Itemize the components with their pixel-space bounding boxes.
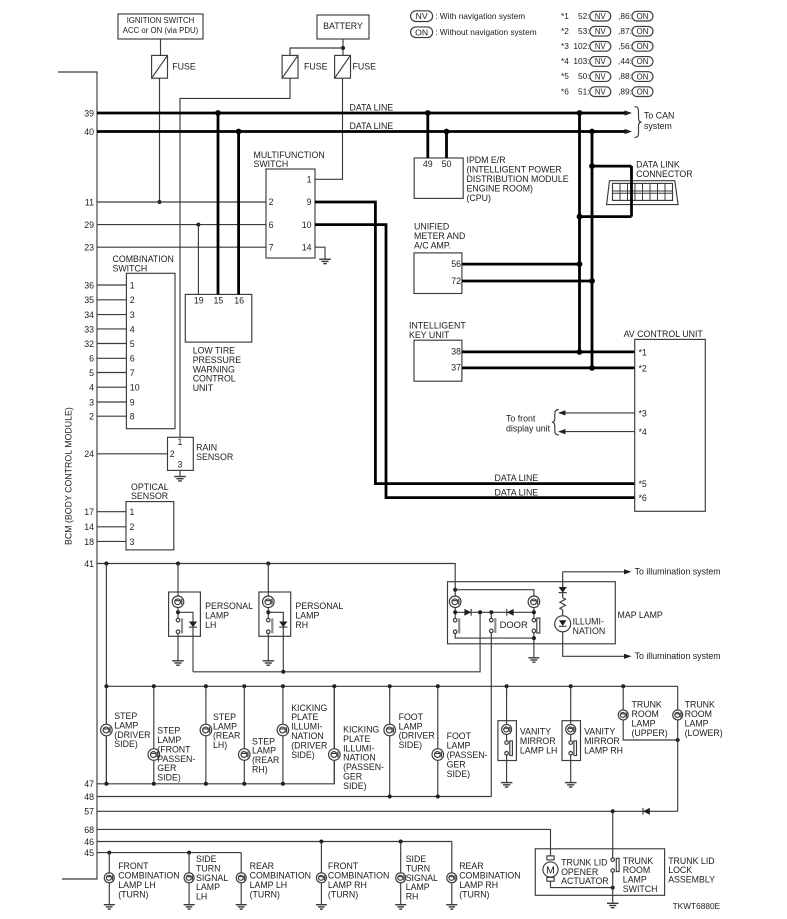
svg-text:9: 9 [130, 397, 135, 407]
svg-text:RH: RH [406, 892, 419, 902]
svg-text:M: M [546, 865, 555, 877]
lamp circuit: step lamp rear LH [204, 684, 208, 688]
svg-text:To CAN: To CAN [644, 111, 674, 121]
svg-text:UNIT: UNIT [193, 383, 214, 393]
fuse F2 (battery) [282, 55, 298, 78]
left feed vertical row41->row47 [105, 564, 107, 784]
svg-text:50:: 50: [578, 71, 590, 81]
rain sensor pin 3 to ground [179, 470, 181, 476]
svg-text:LAMP RH: LAMP RH [584, 745, 623, 755]
svg-text:2: 2 [170, 449, 175, 459]
svg-text:BCM (BODY CONTROL MODULE): BCM (BODY CONTROL MODULE) [64, 407, 74, 545]
svg-text:49: 49 [423, 159, 433, 169]
svg-text:ASSEMBLY: ASSEMBLY [668, 875, 715, 885]
svg-text:9: 9 [307, 197, 312, 207]
svg-text:16: 16 [234, 296, 244, 306]
row 57 wire [97, 810, 678, 812]
svg-text:ON: ON [637, 57, 649, 66]
door switch contacts RH [267, 618, 271, 622]
row 24 to rain sensor pin 2 [97, 453, 168, 455]
svg-text:10: 10 [302, 220, 312, 230]
svg-text:: With navigation system: : With navigation system [435, 11, 525, 21]
row 29 to MF pin 6 [97, 224, 266, 226]
svg-text:TKWT6880E: TKWT6880E [673, 901, 721, 911]
svg-text:KEY UNIT: KEY UNIT [409, 330, 450, 340]
ground personal lamp LH [172, 660, 184, 662]
svg-text:*5: *5 [639, 479, 647, 489]
svg-text:LH: LH [205, 620, 216, 630]
top branch to bulb 2 [455, 590, 534, 597]
svg-text:39: 39 [84, 108, 94, 118]
bulb personal lamp RH [263, 596, 275, 608]
svg-text:,86:: ,86: [618, 11, 632, 21]
ground side turn signal lamp RH [395, 904, 406, 906]
diode branch RH [268, 612, 283, 621]
svg-text:2: 2 [130, 295, 135, 305]
svg-text:DATA LINE: DATA LINE [495, 488, 539, 498]
ground front combination lamp RH [316, 904, 327, 906]
row 47 wire [97, 686, 334, 784]
svg-text:2: 2 [269, 197, 274, 207]
DLC wire through connector [630, 166, 633, 217]
svg-text:,88:: ,88: [618, 71, 632, 81]
svg-text:RH: RH [295, 620, 308, 630]
illumination LED lamp [555, 616, 571, 632]
svg-text:ON: ON [637, 42, 649, 51]
svg-text:72: 72 [451, 276, 461, 286]
svg-text:DISTRIBUTION MODULE: DISTRIBUTION MODULE [467, 174, 569, 184]
ground vanity LH [501, 782, 513, 784]
row 11 to MF pin 2 [97, 201, 266, 203]
ground at MF pin 14 [319, 258, 331, 260]
svg-text:NV: NV [595, 42, 607, 51]
svg-text:56: 56 [451, 259, 461, 269]
svg-text:33: 33 [84, 324, 94, 334]
wire ignition to fuse [160, 39, 162, 55]
svg-text:5: 5 [130, 339, 135, 349]
svg-text:DOOR: DOOR [500, 619, 528, 630]
svg-text:SIDE): SIDE) [157, 773, 181, 783]
svg-text:ACC or ON (via PDU): ACC or ON (via PDU) [123, 26, 199, 35]
ground front combination lamp LH [104, 904, 115, 906]
junction to middle door switch [489, 610, 493, 614]
wire fuse F2 down to rain sensor pin 1 [180, 78, 290, 437]
svg-text:display unit: display unit [506, 424, 551, 434]
svg-text:NV: NV [595, 87, 607, 96]
svg-text:1: 1 [307, 175, 312, 185]
multifunction switch box [266, 169, 315, 258]
AV control unit box [635, 339, 706, 511]
wire row29 branch to pin 19 [197, 225, 199, 295]
wire to illumination system (top arrow) [563, 571, 625, 573]
row 45 wire [97, 852, 241, 854]
svg-text:102:: 102: [573, 41, 589, 51]
svg-text:68: 68 [84, 825, 94, 835]
ignition switch box [118, 14, 203, 39]
ground rear combination lamp RH [446, 904, 457, 906]
svg-text:FUSE: FUSE [353, 61, 377, 71]
svg-text:FUSE: FUSE [304, 61, 328, 71]
data line row 39 (CAN-H) [97, 112, 625, 115]
lamp circuit: step lamp driver [104, 684, 108, 688]
svg-text:41: 41 [84, 559, 94, 569]
svg-text:NATION: NATION [573, 626, 606, 636]
svg-text:103:: 103: [573, 56, 589, 66]
fuse F3 (battery) [335, 55, 351, 78]
svg-text:DATA LINE: DATA LINE [350, 121, 394, 131]
DLC branch from B [592, 165, 632, 168]
middle switch wire down to row 48 [490, 633, 492, 797]
wire row41 to personal lamp RH [267, 564, 269, 597]
svg-text:SIDE): SIDE) [399, 740, 423, 750]
MF pin 14 wire to ground [315, 247, 325, 259]
door switch row [455, 611, 534, 613]
svg-text:,89:: ,89: [618, 86, 632, 96]
svg-text:*3: *3 [639, 408, 647, 418]
diode D1 (anode left) [464, 609, 471, 616]
svg-text:(TURN): (TURN) [250, 889, 280, 899]
svg-text:ON: ON [637, 87, 649, 96]
trunk room lamp (upper) [621, 684, 625, 688]
side turn signal lamp RH [400, 842, 402, 905]
svg-text:14: 14 [302, 243, 312, 253]
svg-text:40: 40 [84, 127, 94, 137]
svg-text:8: 8 [130, 412, 135, 422]
MF pin 10 wire to AV *6 (data line) [315, 225, 635, 498]
svg-text:35: 35 [84, 295, 94, 305]
trunk lid opener actuator (motor) [547, 856, 554, 860]
svg-text:38: 38 [451, 347, 461, 357]
svg-text:3: 3 [130, 537, 135, 547]
vanity mirror lamp LH [505, 684, 509, 688]
personal lamp LH box [169, 592, 201, 636]
MF pin 9 wire to AV *5 (data line) [315, 202, 635, 484]
legend: ON oval [411, 27, 433, 38]
row 37 thick wire to AV *2 [462, 366, 635, 369]
svg-text:(UPPER): (UPPER) [632, 728, 668, 738]
svg-text:SWITCH: SWITCH [254, 159, 289, 169]
svg-text:*3: *3 [561, 41, 569, 51]
trunk room lamp (lower) [677, 686, 679, 811]
trunk lid lock assembly box [535, 849, 664, 896]
svg-text:29: 29 [84, 220, 94, 230]
ground rear combination lamp LH [236, 904, 247, 906]
lamp circuit: foot lamp driver [388, 684, 392, 688]
svg-text:LH: LH [196, 892, 207, 902]
wire row41 to personal lamp LH [177, 564, 179, 597]
svg-text:ACTUATOR: ACTUATOR [561, 876, 609, 886]
svg-text:IGNITION SWITCH: IGNITION SWITCH [127, 16, 195, 25]
svg-text:57: 57 [84, 807, 94, 817]
svg-text:7: 7 [130, 368, 135, 378]
svg-text:SIDE): SIDE) [291, 750, 315, 760]
row 68 wire to trunk lid opener [97, 829, 551, 856]
svg-text:BATTERY: BATTERY [323, 21, 363, 31]
personal lamp RH box [259, 592, 291, 636]
lamp circuit: kicking plate driver [281, 684, 285, 688]
svg-text:ON: ON [637, 12, 649, 21]
svg-text:DATA LINE: DATA LINE [495, 473, 539, 483]
svg-text:48: 48 [84, 792, 94, 802]
row 41 wire [97, 564, 455, 597]
thick wire data line 40 to pin 16 [237, 132, 240, 295]
optical sensor box [126, 502, 174, 550]
battery box [317, 15, 369, 39]
svg-text:To illumination system: To illumination system [635, 651, 721, 661]
rear combination lamp LH [240, 853, 242, 905]
wire fuse F3 to multifunction switch pin 1 [315, 78, 343, 179]
thick wire data line 39 to pin 15 [217, 113, 220, 294]
svg-text:IPDM E/R: IPDM E/R [467, 155, 506, 165]
front combination lamp RH [320, 842, 322, 905]
optical sensor rows 17/14/18 [97, 511, 126, 513]
svg-text:ON: ON [415, 27, 428, 37]
svg-text:*2: *2 [639, 363, 647, 373]
svg-text:NV: NV [416, 11, 428, 21]
DLC branch to A [580, 215, 632, 218]
svg-text:ON: ON [637, 72, 649, 81]
IPDM E/R box [414, 158, 463, 198]
wire to illumination system (bottom arrow) [563, 632, 625, 657]
svg-text:(CPU): (CPU) [467, 193, 492, 203]
svg-text:*5: *5 [561, 71, 569, 81]
svg-text:MAP LAMP: MAP LAMP [618, 610, 663, 620]
diode return wire to map lamp door line [193, 612, 480, 672]
svg-text:SWITCH: SWITCH [113, 264, 148, 274]
svg-text:(TURN): (TURN) [118, 889, 148, 899]
lamp circuit: kicking plate passenger [332, 684, 336, 688]
svg-text:,87:: ,87: [618, 26, 632, 36]
svg-text:system: system [644, 121, 672, 131]
svg-text:3: 3 [178, 459, 183, 469]
svg-text:NV: NV [595, 72, 607, 81]
svg-text:(TURN): (TURN) [328, 889, 358, 899]
svg-text:1: 1 [178, 437, 183, 447]
row 46 wire [97, 841, 452, 843]
row 48 wire [97, 796, 491, 798]
map lamp box [448, 582, 616, 644]
row 23 to MF pin 7 [97, 246, 266, 248]
diode on row 57 (cathode left) [643, 808, 650, 815]
CAN vertical branch B (from line 40) [591, 132, 594, 368]
svg-text:52:: 52: [578, 11, 590, 21]
svg-text:RH): RH) [252, 765, 268, 775]
rain sensor box [168, 437, 194, 470]
svg-text:SIDE): SIDE) [447, 769, 471, 779]
svg-text:5: 5 [89, 368, 94, 378]
svg-text:AV CONTROL UNIT: AV CONTROL UNIT [624, 329, 704, 339]
svg-text:45: 45 [84, 848, 94, 858]
svg-text:1: 1 [130, 280, 135, 290]
door switch contacts LH [176, 618, 180, 622]
svg-text:SENSOR: SENSOR [196, 452, 233, 462]
svg-text:51:: 51: [578, 86, 590, 96]
svg-text:To front: To front [506, 414, 536, 424]
vanity mirror lamp RH [569, 684, 573, 688]
lamp circuit: foot lamp passenger [436, 684, 440, 688]
svg-text:*1: *1 [561, 11, 569, 21]
svg-text:6: 6 [269, 220, 274, 230]
svg-text:4: 4 [89, 383, 94, 393]
middle door switch [490, 612, 492, 618]
svg-text:3: 3 [89, 397, 94, 407]
diode branch LH [178, 612, 193, 621]
svg-text:*4: *4 [561, 56, 569, 66]
svg-text:3: 3 [130, 310, 135, 320]
svg-text:50: 50 [442, 159, 452, 169]
row 56 thick wire [462, 263, 580, 266]
svg-text:SWITCH: SWITCH [623, 884, 658, 894]
svg-text:DATA LINE: DATA LINE [350, 103, 394, 113]
rear combination lamp RH [451, 842, 453, 905]
lamp circuit: step lamp front passenger [152, 684, 156, 688]
svg-text:To illumination system: To illumination system [635, 567, 721, 577]
front combination lamp LH [108, 853, 110, 905]
svg-text:4: 4 [130, 324, 135, 334]
svg-text:,44:: ,44: [618, 56, 632, 66]
junction dots on data lines [215, 110, 221, 116]
svg-text:*2: *2 [561, 26, 569, 36]
wire fuse F1 down to row 11 [159, 78, 161, 202]
svg-text:15: 15 [214, 296, 224, 306]
svg-text:14: 14 [84, 522, 94, 532]
intelligent key unit box [414, 340, 462, 381]
svg-text:: Without navigation system: : Without navigation system [435, 27, 537, 37]
ground map lamp [528, 657, 539, 659]
svg-text:18: 18 [84, 537, 94, 547]
thick wires data lines to IPDM pins 49/50 [426, 113, 429, 158]
svg-text:LAMP LH: LAMP LH [520, 745, 558, 755]
unified meter and A/C amp box [414, 253, 462, 294]
svg-text:NV: NV [595, 12, 607, 21]
svg-text:SENSOR: SENSOR [131, 491, 168, 501]
ground side turn signal lamp LH [184, 904, 195, 906]
svg-text:*1: *1 [639, 347, 647, 357]
combination switch box [126, 273, 175, 428]
diode D2 (anode right, apex left) [507, 609, 514, 616]
svg-text:10: 10 [130, 383, 140, 393]
svg-text:LH): LH) [213, 740, 227, 750]
svg-text:17: 17 [84, 507, 94, 517]
svg-text:*4: *4 [639, 427, 647, 437]
row 38 thick wire to AV *1 [462, 350, 635, 353]
svg-text:ENGINE ROOM): ENGINE ROOM) [467, 184, 534, 194]
svg-text:FUSE: FUSE [172, 61, 196, 71]
combination switch rows [97, 284, 126, 286]
brace front display [552, 410, 559, 436]
svg-text:SIDE): SIDE) [343, 781, 367, 791]
ground vanity RH [565, 782, 577, 784]
map lamp bulb 2 [528, 596, 540, 608]
svg-text:36: 36 [84, 280, 94, 290]
svg-text:(LOWER): (LOWER) [685, 728, 723, 738]
svg-text:7: 7 [269, 243, 274, 253]
bulb personal lamp LH [172, 596, 184, 608]
svg-text:1: 1 [130, 507, 135, 517]
svg-text:(TURN): (TURN) [459, 889, 489, 899]
svg-text:(INTELLIGENT POWER: (INTELLIGENT POWER [467, 164, 562, 174]
svg-text:SIDE): SIDE) [114, 739, 138, 749]
junction to personal-lamp diode return [478, 610, 482, 614]
data line row 40 (CAN-L) [97, 130, 625, 133]
legend: NV oval [411, 11, 433, 22]
illumination branch [562, 572, 564, 587]
diode illumination [559, 587, 567, 593]
brace to CAN system [635, 107, 642, 138]
svg-text:NV: NV [595, 27, 607, 36]
row 72 thick wire [462, 280, 592, 283]
resistor illumination [560, 598, 566, 610]
svg-text:23: 23 [84, 243, 94, 253]
svg-text:46: 46 [84, 837, 94, 847]
interior lamp top bus [106, 685, 677, 687]
svg-text:47: 47 [84, 779, 94, 789]
svg-text:CONNECTOR: CONNECTOR [636, 169, 693, 179]
CAN vertical branch A (from line 39) [578, 113, 581, 352]
right door switch [453, 618, 457, 622]
map lamp bulb 1 [449, 596, 461, 608]
svg-text:ON: ON [637, 27, 649, 36]
arrows to front display unit [560, 412, 635, 414]
svg-text:53:: 53: [578, 26, 590, 36]
svg-text:*6: *6 [561, 86, 569, 96]
low tire pressure warning control unit box [185, 294, 252, 342]
svg-text:2: 2 [130, 522, 135, 532]
svg-text:6: 6 [130, 354, 135, 364]
svg-text:24: 24 [84, 449, 94, 459]
svg-text:A/C AMP.: A/C AMP. [414, 240, 451, 250]
lamp circuit: step lamp rear RH [242, 684, 246, 688]
ground trunk assembly [607, 902, 619, 904]
ground personal lamp RH [263, 660, 275, 662]
svg-text:32: 32 [84, 339, 94, 349]
wire battery to fuses [342, 39, 344, 55]
svg-text:NV: NV [595, 57, 607, 66]
trunk room lamp switch [612, 811, 614, 858]
data link connector symbol [607, 181, 679, 205]
svg-text:34: 34 [84, 310, 94, 320]
svg-text:37: 37 [451, 363, 461, 373]
svg-text:,56:: ,56: [618, 41, 632, 51]
BCM (body control module) bus outline [58, 72, 97, 879]
svg-text:6: 6 [89, 354, 94, 364]
fuse F1 (ignition) [152, 55, 168, 78]
svg-text:19: 19 [194, 296, 204, 306]
svg-text:2: 2 [89, 412, 94, 422]
svg-text:11: 11 [85, 197, 94, 207]
svg-text:*6: *6 [639, 493, 647, 503]
side turn signal lamp LH [188, 853, 190, 905]
